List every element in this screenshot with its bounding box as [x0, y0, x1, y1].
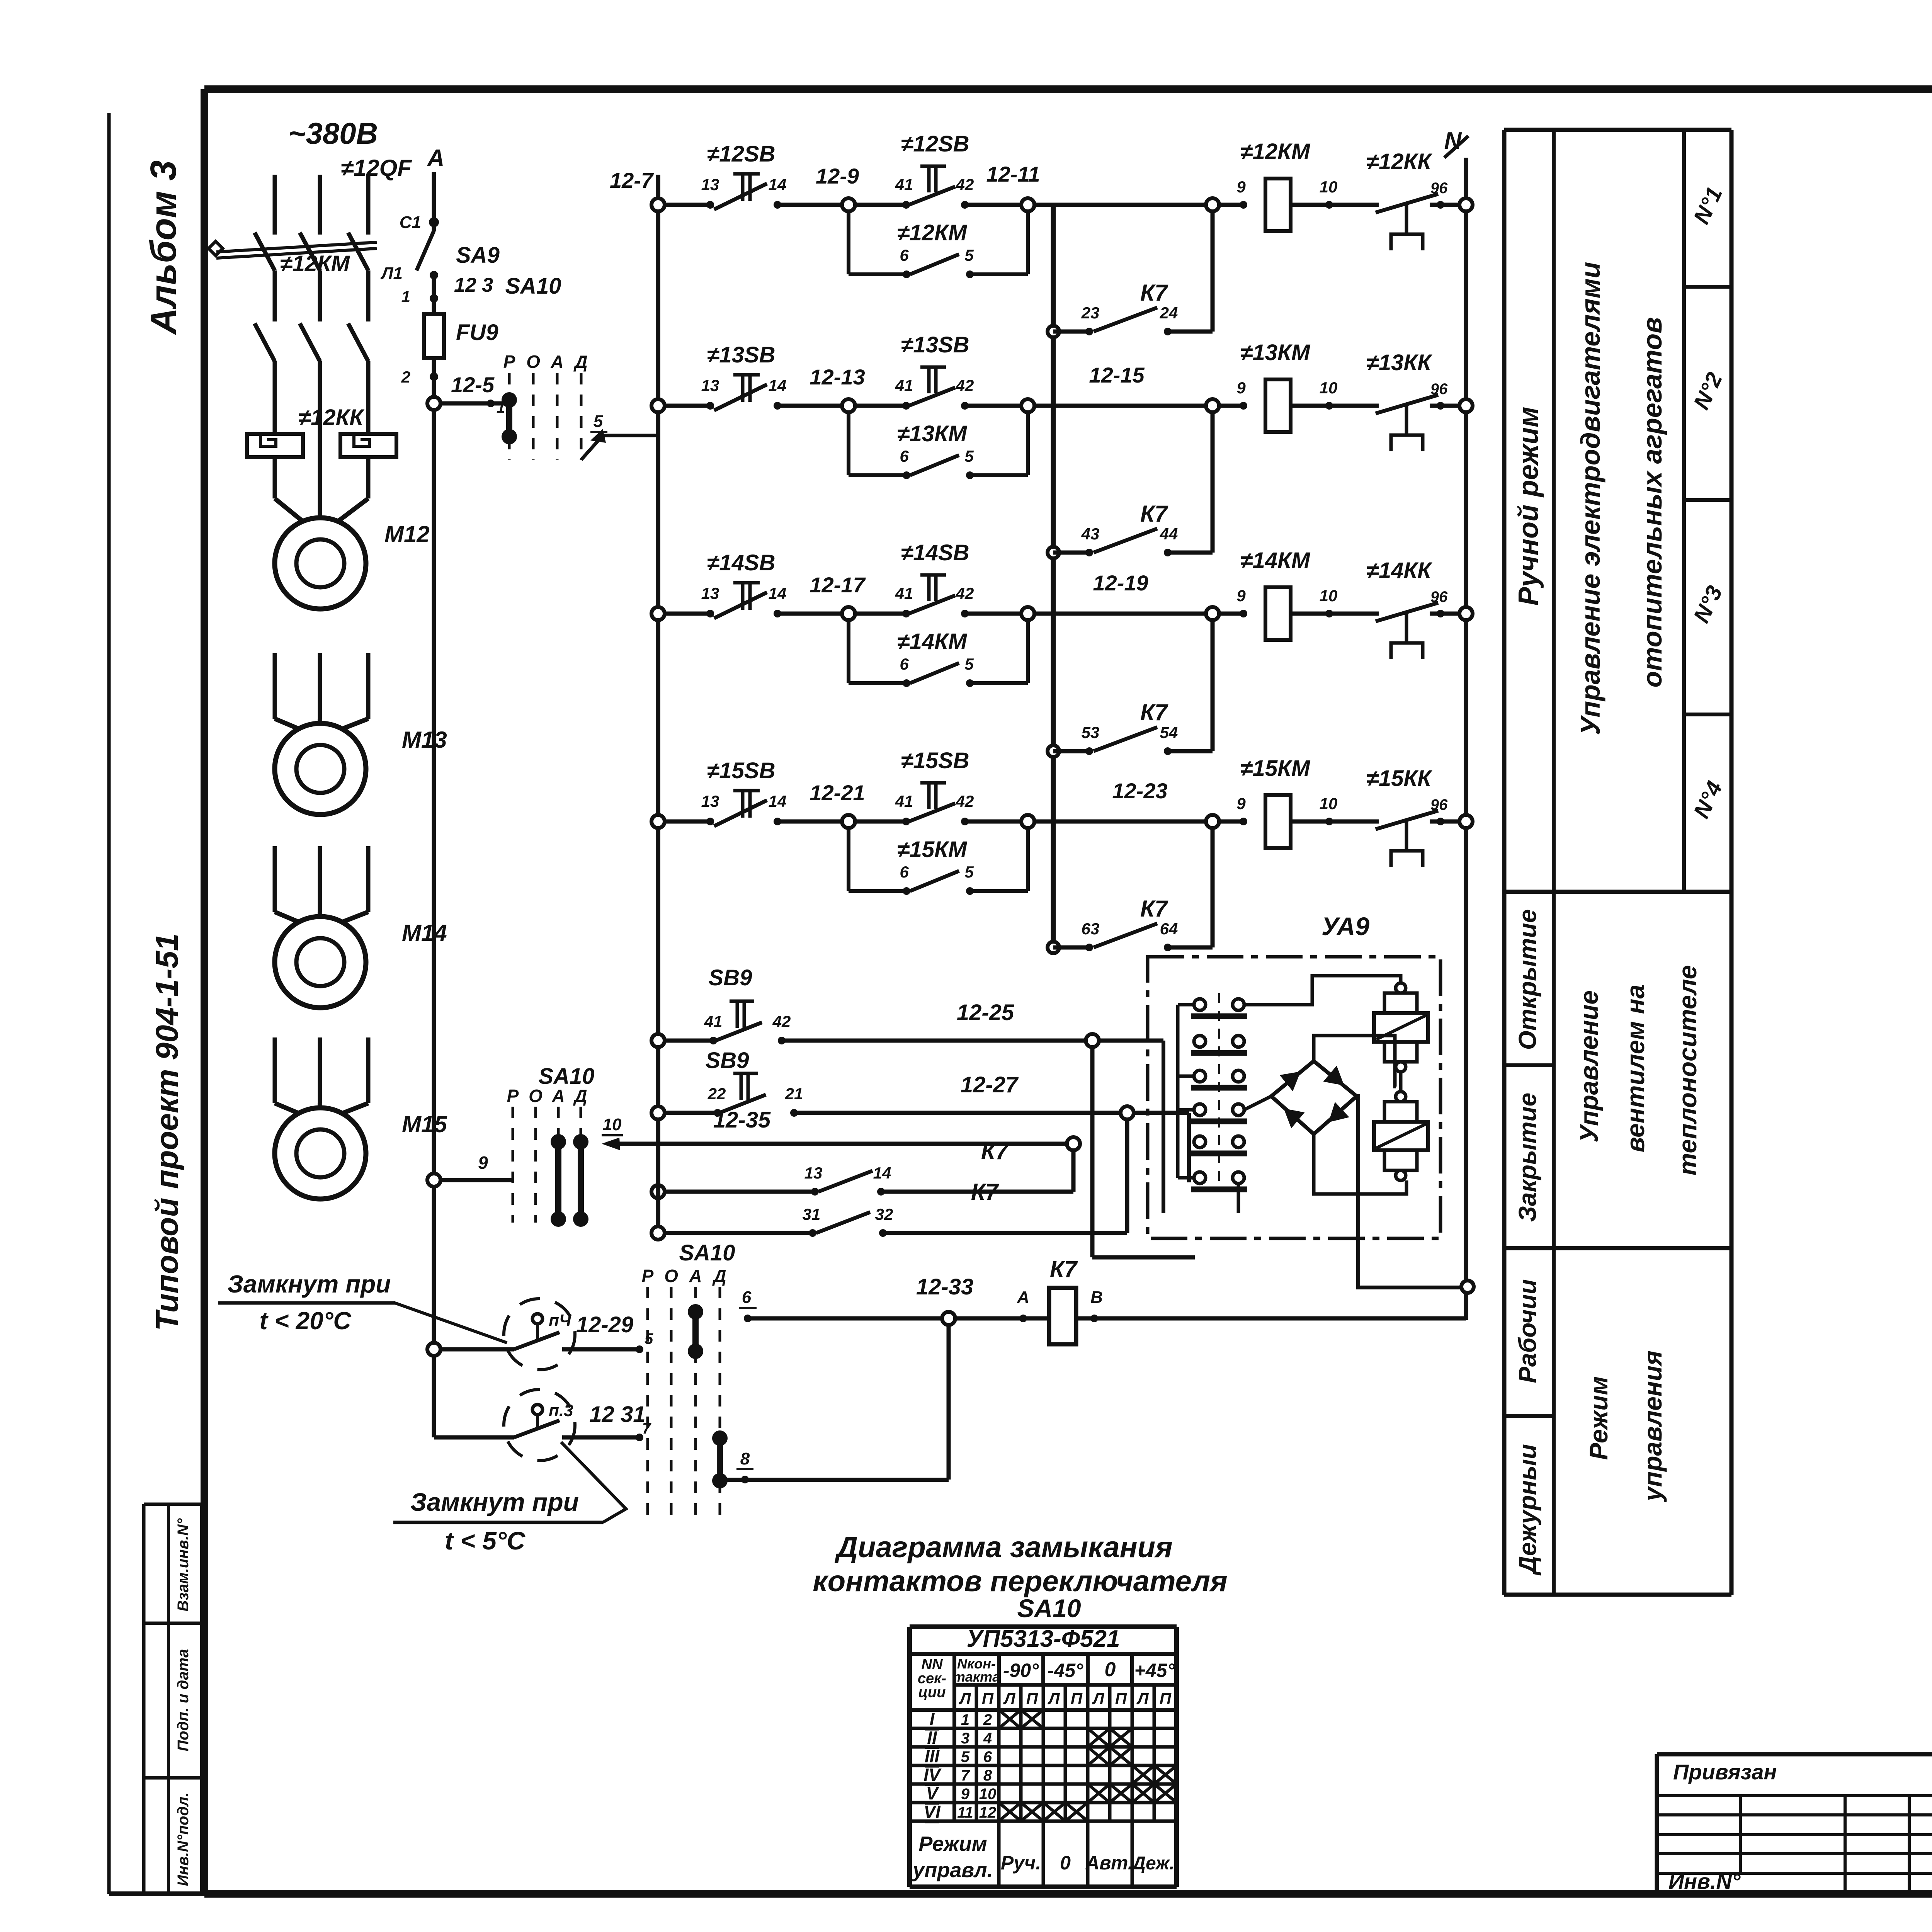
svg-text:8: 8 — [983, 1767, 992, 1784]
svg-text:управл.: управл. — [912, 1859, 993, 1882]
svg-text:П: П — [1071, 1689, 1083, 1708]
svg-text:≠12SB: ≠12SB — [901, 131, 969, 156]
svg-text:Авт.: Авт. — [1085, 1852, 1133, 1874]
svg-text:6: 6 — [900, 863, 909, 881]
svg-text:-90°: -90° — [1003, 1660, 1039, 1681]
svg-text:≠12КК: ≠12КК — [1366, 149, 1432, 174]
svg-text:44: 44 — [1160, 525, 1178, 543]
svg-text:12-11: 12-11 — [986, 162, 1040, 186]
svg-text:10: 10 — [1320, 587, 1338, 605]
svg-text:≠14SB: ≠14SB — [707, 550, 776, 575]
svg-text:Замкнут при: Замкнут при — [410, 1488, 579, 1516]
svg-text:≠12КМ: ≠12КМ — [897, 220, 968, 245]
svg-text:24: 24 — [1160, 304, 1178, 322]
svg-text:Д: Д — [573, 1086, 587, 1106]
svg-text:13: 13 — [701, 175, 719, 194]
svg-text:5: 5 — [964, 655, 974, 673]
svg-text:5: 5 — [964, 863, 974, 881]
svg-text:31: 31 — [803, 1205, 821, 1223]
svg-text:управления: управления — [1638, 1350, 1667, 1502]
svg-text:t < 20°С: t < 20°С — [259, 1307, 351, 1335]
svg-text:О: О — [664, 1266, 678, 1286]
svg-text:43: 43 — [1081, 525, 1100, 543]
svg-text:12-7: 12-7 — [610, 168, 654, 192]
svg-text:6: 6 — [742, 1288, 752, 1307]
svg-text:5: 5 — [594, 412, 603, 431]
svg-text:9: 9 — [478, 1153, 488, 1173]
svg-text:12-13: 12-13 — [810, 365, 865, 389]
svg-text:12: 12 — [979, 1804, 997, 1821]
svg-text:+45°: +45° — [1134, 1660, 1175, 1681]
svg-text:12 3: 12 3 — [454, 274, 493, 296]
svg-text:V: V — [926, 1783, 939, 1803]
svg-text:К7: К7 — [981, 1138, 1009, 1164]
svg-text:12-29: 12-29 — [576, 1312, 633, 1337]
svg-text:≠12QF: ≠12QF — [341, 155, 412, 181]
svg-text:≠14SB: ≠14SB — [901, 540, 969, 565]
svg-text:10: 10 — [1320, 178, 1338, 196]
svg-text:FU9: FU9 — [456, 320, 498, 345]
svg-text:Режим: Режим — [1584, 1376, 1613, 1460]
svg-text:О: О — [526, 352, 540, 372]
svg-text:7: 7 — [961, 1767, 970, 1784]
svg-text:вентилем на: вентилем на — [1621, 985, 1650, 1152]
svg-text:53: 53 — [1082, 723, 1100, 742]
svg-text:УП5313-Ф521: УП5313-Ф521 — [966, 1626, 1120, 1652]
svg-text:12 31: 12 31 — [589, 1402, 645, 1427]
svg-text:М15: М15 — [402, 1111, 447, 1137]
svg-text:П: П — [1160, 1689, 1172, 1708]
svg-text:4: 4 — [983, 1730, 992, 1747]
svg-text:Дежурныи: Дежурныи — [1514, 1444, 1541, 1576]
svg-text:22: 22 — [707, 1085, 726, 1103]
svg-text:VI: VI — [923, 1802, 941, 1822]
svg-text:Подп. и дата: Подп. и дата — [175, 1649, 192, 1752]
svg-text:12-27: 12-27 — [961, 1072, 1019, 1097]
svg-text:≠14КК: ≠14КК — [1366, 558, 1432, 583]
svg-text:12-17: 12-17 — [810, 573, 866, 597]
svg-text:42: 42 — [772, 1012, 791, 1031]
svg-text:А: А — [427, 145, 445, 172]
svg-text:О: О — [529, 1086, 543, 1106]
svg-text:Инв.N°подл.: Инв.N°подл. — [175, 1793, 192, 1886]
svg-text:64: 64 — [1160, 920, 1178, 938]
svg-text:2: 2 — [401, 368, 410, 386]
svg-text:10: 10 — [603, 1115, 622, 1134]
svg-text:12-21: 12-21 — [810, 781, 865, 805]
svg-text:IV: IV — [923, 1765, 942, 1785]
svg-text:Рабочии: Рабочии — [1514, 1279, 1541, 1383]
svg-text:отопительных агрегатов: отопительных агрегатов — [1637, 317, 1667, 688]
svg-text:Взам.инв.N°: Взам.инв.N° — [175, 1518, 192, 1612]
svg-text:≠13КМ: ≠13КМ — [897, 421, 968, 446]
svg-text:96: 96 — [1430, 180, 1448, 197]
svg-text:10: 10 — [1320, 379, 1338, 397]
svg-text:Привязан: Привязан — [1673, 1760, 1777, 1784]
svg-text:В: В — [1090, 1288, 1103, 1307]
svg-text:SA10: SA10 — [538, 1064, 594, 1089]
svg-text:SB9: SB9 — [706, 1048, 749, 1073]
svg-text:5: 5 — [964, 246, 974, 264]
svg-text:≠13КК: ≠13КК — [1366, 350, 1432, 375]
svg-text:К7: К7 — [1140, 699, 1168, 725]
svg-text:А: А — [689, 1266, 702, 1286]
svg-text:Л1: Л1 — [380, 264, 403, 283]
svg-text:≠13КМ: ≠13КМ — [1240, 340, 1311, 365]
svg-text:Д: Д — [573, 352, 587, 372]
svg-text:≠15КМ: ≠15КМ — [1240, 756, 1311, 781]
svg-text:К7: К7 — [1140, 280, 1168, 306]
svg-text:≠15КК: ≠15КК — [1366, 766, 1432, 791]
svg-text:12-15: 12-15 — [1089, 363, 1145, 387]
svg-text:6: 6 — [900, 447, 909, 465]
svg-text:10: 10 — [979, 1786, 997, 1803]
svg-text:42: 42 — [956, 584, 974, 602]
svg-text:41: 41 — [895, 792, 913, 810]
svg-text:14: 14 — [769, 792, 787, 810]
svg-text:9: 9 — [961, 1786, 970, 1803]
svg-text:1: 1 — [401, 287, 410, 306]
svg-text:13: 13 — [701, 792, 719, 810]
svg-text:42: 42 — [956, 376, 974, 395]
svg-text:SA9: SA9 — [456, 243, 500, 268]
svg-text:6: 6 — [900, 655, 909, 673]
svg-text:Р: Р — [507, 1086, 519, 1106]
svg-text:42: 42 — [956, 792, 974, 810]
svg-text:П: П — [1026, 1689, 1038, 1708]
svg-text:С1: С1 — [400, 213, 421, 232]
svg-text:SB9: SB9 — [709, 965, 752, 990]
svg-text:Л: Л — [1003, 1689, 1016, 1708]
svg-text:такта: такта — [953, 1669, 1000, 1685]
svg-text:12-33: 12-33 — [916, 1274, 973, 1299]
svg-text:≠13SB: ≠13SB — [901, 332, 969, 357]
svg-text:Инв.N°: Инв.N° — [1668, 1869, 1741, 1893]
svg-text:≠12КМ: ≠12КМ — [1240, 139, 1311, 164]
svg-text:А: А — [1017, 1288, 1029, 1307]
svg-text:Р: Р — [642, 1266, 654, 1286]
svg-text:11: 11 — [957, 1804, 973, 1821]
svg-text:контактов переключателя: контактов переключателя — [813, 1565, 1228, 1598]
svg-text:13: 13 — [701, 376, 719, 395]
svg-text:12-5: 12-5 — [451, 372, 495, 397]
svg-text:14: 14 — [769, 584, 787, 602]
svg-text:14: 14 — [873, 1164, 891, 1182]
svg-text:II: II — [927, 1728, 937, 1748]
svg-text:Закрытие: Закрытие — [1514, 1093, 1541, 1222]
svg-text:Режим: Режим — [918, 1832, 987, 1855]
svg-text:54: 54 — [1160, 723, 1178, 742]
svg-text:П: П — [1115, 1689, 1127, 1708]
svg-text:Д: Д — [712, 1266, 726, 1286]
svg-text:Управление: Управление — [1575, 990, 1603, 1143]
svg-text:12-35: 12-35 — [713, 1107, 771, 1133]
svg-text:К7: К7 — [971, 1179, 999, 1205]
svg-text:12-9: 12-9 — [816, 164, 859, 188]
svg-text:УА9: УА9 — [1321, 912, 1369, 940]
svg-text:96: 96 — [1430, 381, 1448, 398]
svg-text:Открытие: Открытие — [1514, 909, 1541, 1050]
svg-text:≠15SB: ≠15SB — [901, 748, 969, 773]
svg-text:96: 96 — [1430, 588, 1448, 605]
svg-text:14: 14 — [769, 376, 787, 395]
svg-text:Ручной режим: Ручной режим — [1513, 407, 1544, 606]
svg-text:Диаграмма замыкания: Диаграмма замыкания — [834, 1531, 1173, 1564]
svg-text:9: 9 — [1236, 794, 1246, 813]
svg-text:Типовой проект 904-1-51: Типовой проект 904-1-51 — [150, 933, 185, 1331]
svg-text:ции: ции — [918, 1684, 946, 1701]
svg-text:≠12КМ: ≠12КМ — [280, 251, 350, 276]
svg-text:Руч.: Руч. — [1001, 1852, 1041, 1874]
svg-text:≠14КМ: ≠14КМ — [1240, 548, 1311, 573]
svg-text:8: 8 — [740, 1449, 750, 1468]
svg-text:5: 5 — [961, 1748, 970, 1765]
svg-text:-45°: -45° — [1048, 1660, 1083, 1681]
svg-text:П: П — [982, 1689, 994, 1708]
svg-text:41: 41 — [895, 584, 913, 602]
svg-text:М13: М13 — [402, 727, 447, 753]
svg-text:63: 63 — [1082, 920, 1100, 938]
svg-text:96: 96 — [1430, 796, 1448, 813]
svg-text:Управление электродвигателями: Управление электродвигателями — [1575, 262, 1605, 735]
svg-text:К7: К7 — [1050, 1256, 1078, 1282]
svg-text:М12: М12 — [384, 521, 430, 547]
svg-text:~380В: ~380В — [288, 116, 378, 150]
svg-text:Л: Л — [1048, 1689, 1060, 1708]
svg-text:42: 42 — [956, 175, 974, 194]
svg-text:≠12SB: ≠12SB — [707, 141, 776, 167]
svg-text:Альбом 3: Альбом 3 — [143, 160, 184, 335]
svg-text:М14: М14 — [402, 920, 447, 946]
svg-text:9: 9 — [1236, 178, 1246, 196]
svg-text:Замкнут при: Замкнут при — [228, 1270, 391, 1298]
svg-text:3: 3 — [961, 1730, 969, 1747]
svg-text:21: 21 — [785, 1085, 803, 1103]
svg-text:теплоносителе: теплоносителе — [1673, 965, 1702, 1176]
svg-text:Л: Л — [959, 1689, 971, 1708]
svg-text:23: 23 — [1081, 304, 1100, 322]
svg-text:0: 0 — [1105, 1658, 1116, 1681]
svg-text:Л: Л — [1136, 1689, 1149, 1708]
svg-text:А: А — [551, 1086, 565, 1106]
svg-text:≠15SB: ≠15SB — [707, 758, 776, 783]
svg-text:9: 9 — [1236, 379, 1246, 397]
svg-text:32: 32 — [875, 1205, 893, 1223]
svg-text:12-19: 12-19 — [1093, 571, 1148, 595]
svg-text:2: 2 — [983, 1711, 992, 1728]
svg-text:6: 6 — [900, 246, 909, 264]
svg-text:41: 41 — [704, 1012, 723, 1031]
svg-text:III: III — [925, 1746, 940, 1766]
svg-text:41: 41 — [895, 376, 913, 395]
svg-text:SA10: SA10 — [679, 1240, 735, 1265]
svg-text:41: 41 — [895, 175, 913, 194]
svg-text:Деж.: Деж. — [1131, 1853, 1174, 1874]
svg-text:5: 5 — [964, 447, 974, 465]
svg-text:≠14КМ: ≠14КМ — [897, 629, 968, 654]
svg-text:13: 13 — [804, 1164, 823, 1182]
svg-text:12-23: 12-23 — [1112, 779, 1167, 803]
svg-text:≠12КК: ≠12КК — [298, 405, 364, 430]
svg-text:1: 1 — [961, 1711, 969, 1728]
svg-text:SA10: SA10 — [505, 274, 561, 299]
svg-text:14: 14 — [769, 175, 787, 194]
svg-text:К7: К7 — [1140, 501, 1168, 527]
svg-text:t < 5°С: t < 5°С — [445, 1526, 526, 1555]
svg-text:SA10: SA10 — [1017, 1594, 1081, 1622]
svg-text:10: 10 — [1320, 794, 1338, 813]
svg-text:I: I — [930, 1709, 935, 1729]
svg-text:К7: К7 — [1140, 896, 1168, 922]
svg-text:12-25: 12-25 — [957, 1000, 1014, 1025]
svg-text:Р: Р — [503, 352, 515, 372]
svg-text:≠13SB: ≠13SB — [707, 342, 776, 367]
svg-text:9: 9 — [1236, 587, 1246, 605]
svg-text:А: А — [550, 352, 563, 372]
svg-text:0: 0 — [1060, 1852, 1071, 1874]
svg-text:6: 6 — [983, 1748, 992, 1765]
svg-text:13: 13 — [701, 584, 719, 602]
svg-text:Л: Л — [1092, 1689, 1105, 1708]
svg-text:≠15КМ: ≠15КМ — [897, 837, 968, 862]
